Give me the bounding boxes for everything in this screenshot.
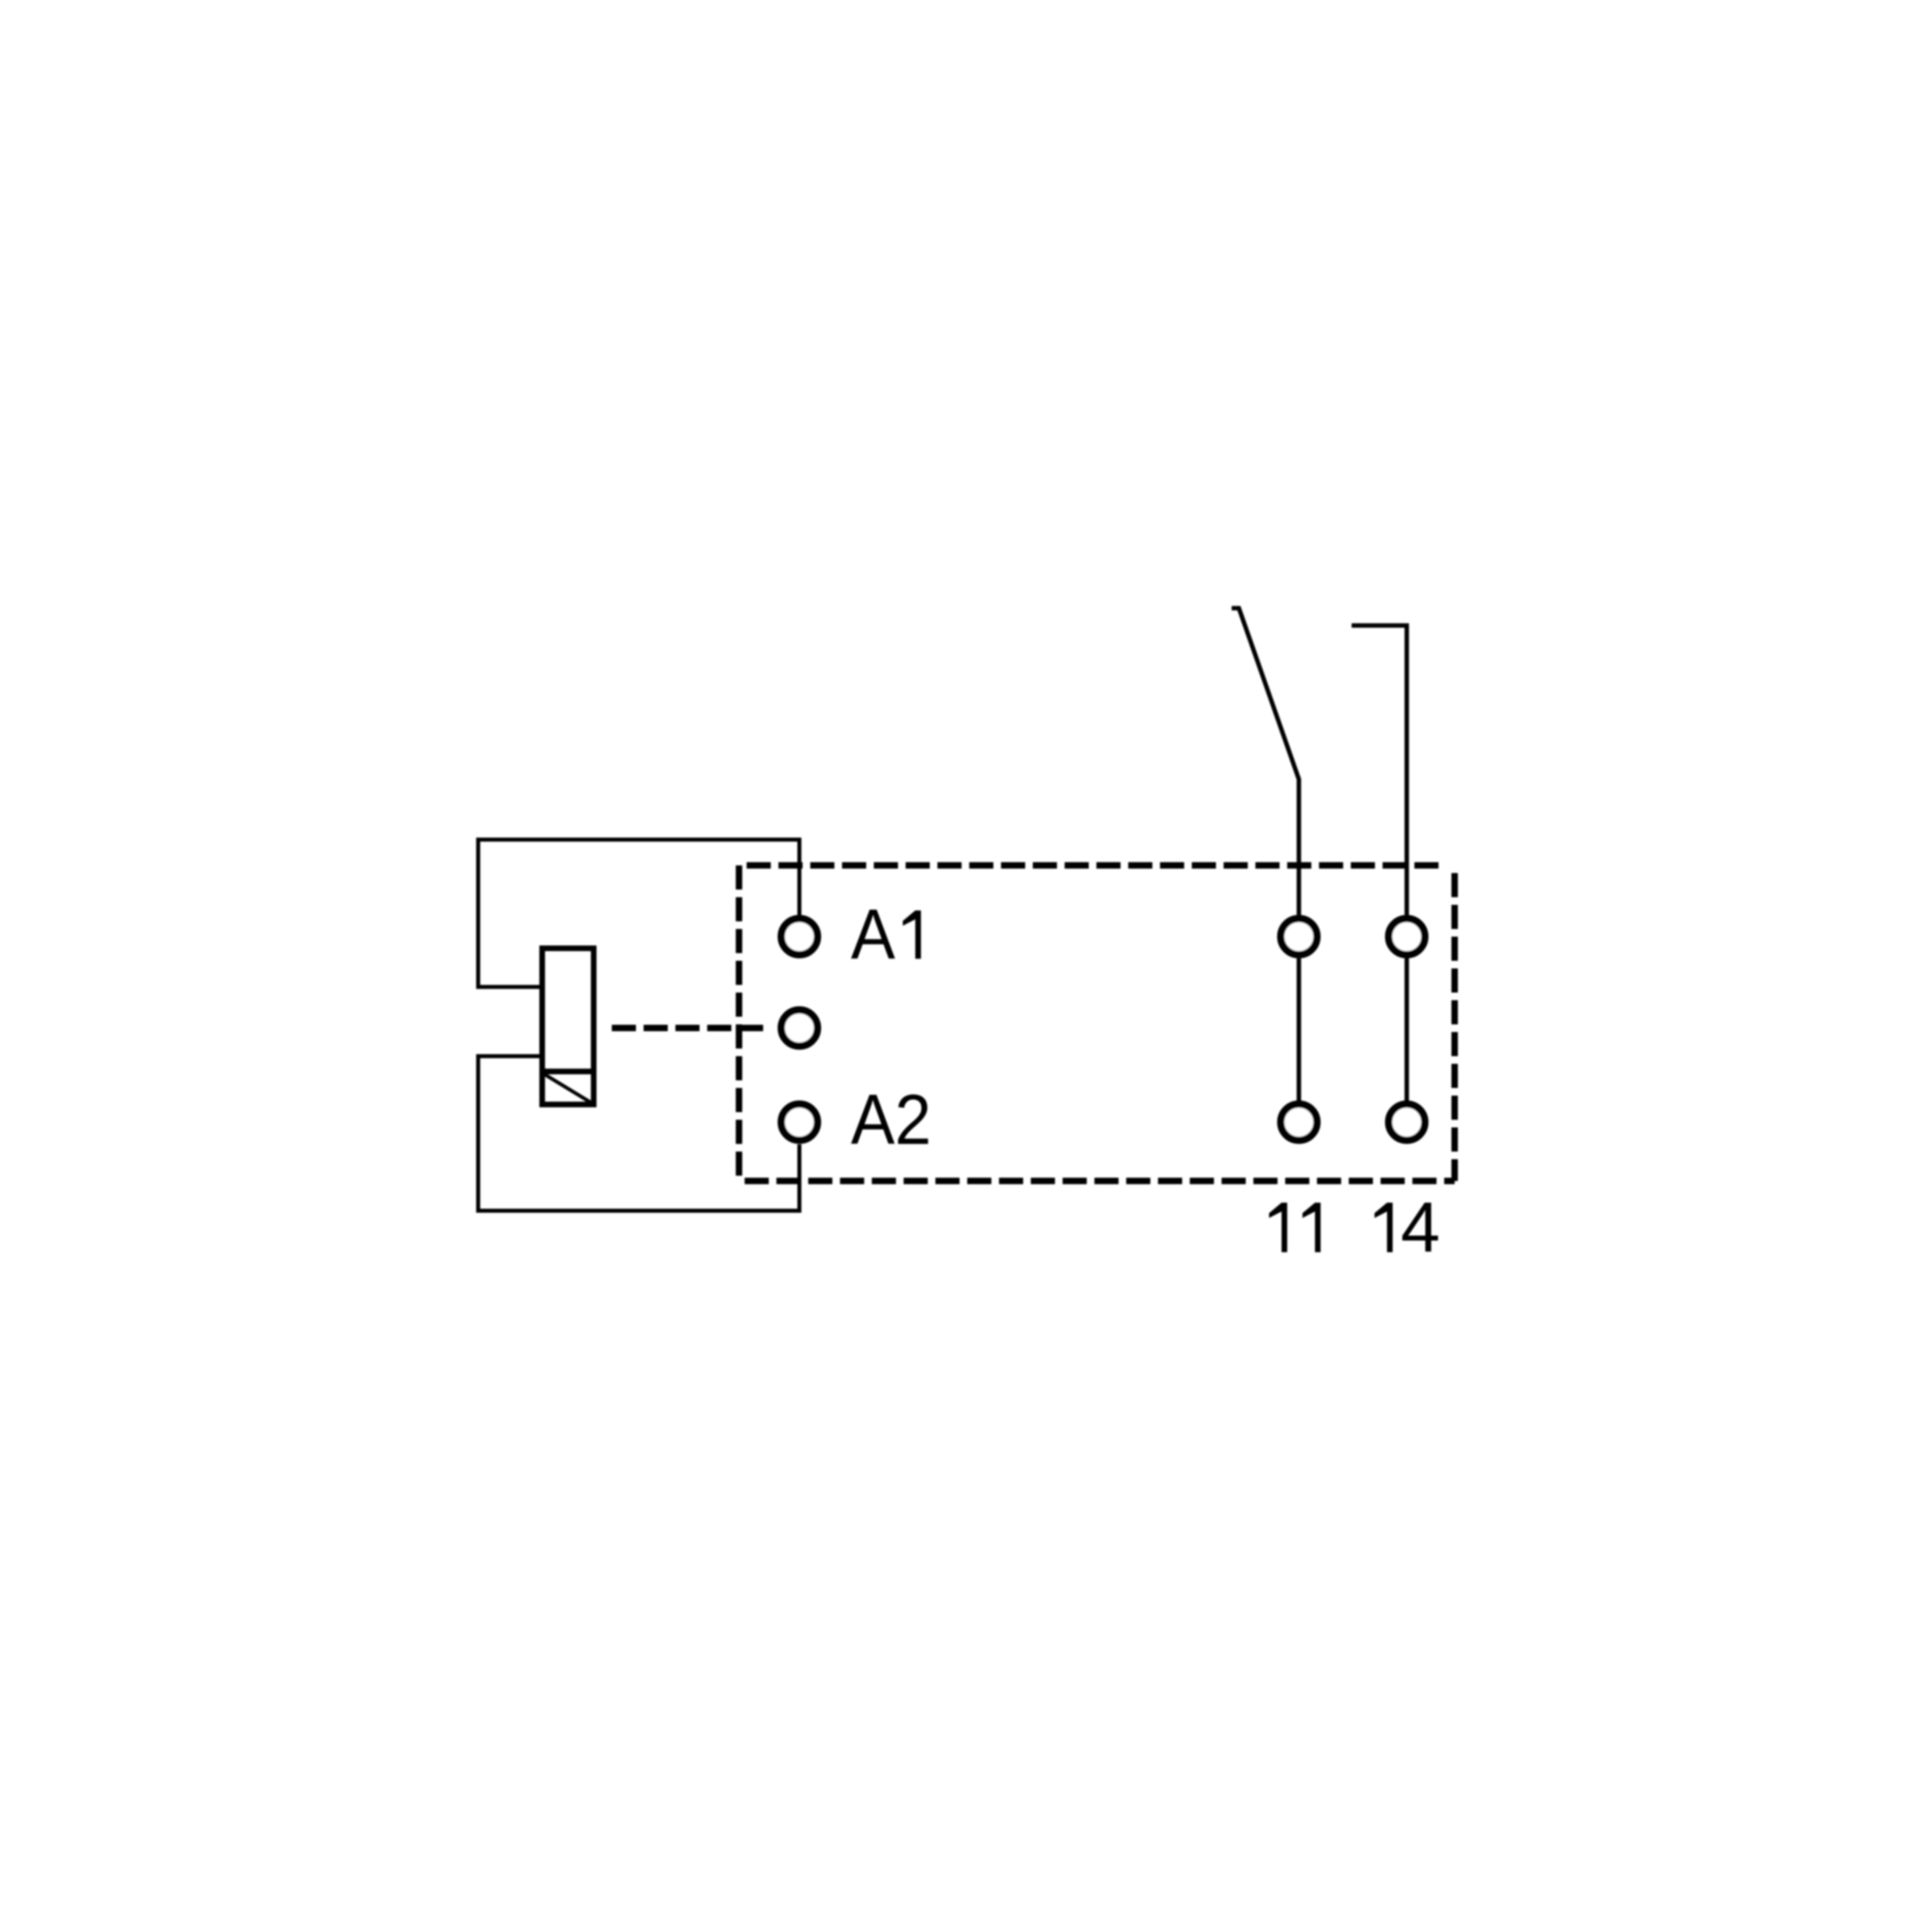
svg-text:4: 4 — [1401, 1187, 1440, 1267]
svg-text:A2: A2 — [851, 1080, 931, 1159]
svg-text:A: A — [851, 894, 895, 974]
